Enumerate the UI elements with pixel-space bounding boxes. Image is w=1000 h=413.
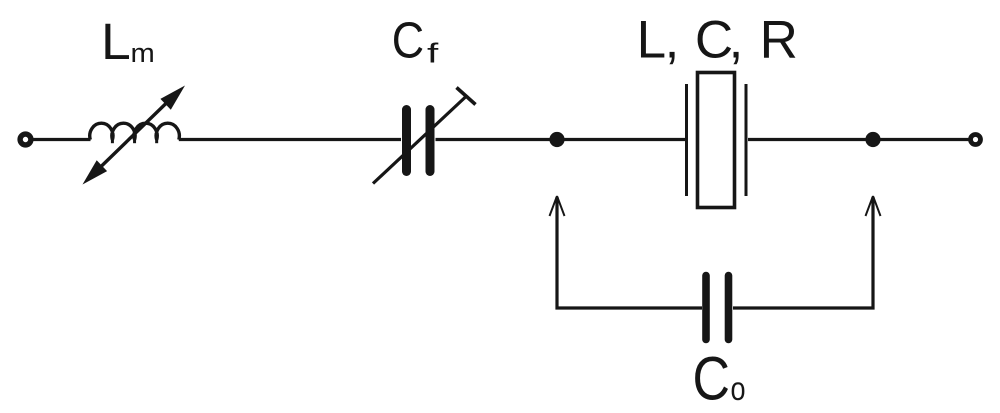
wire bottom left (node A leg and bottom rail to Co) <box>557 197 702 308</box>
crystal body rectangle <box>698 73 735 208</box>
svg-text:L: L <box>101 14 131 71</box>
arrow pointing up to node B <box>866 196 881 216</box>
svg-text:m: m <box>131 38 155 68</box>
capacitor Co plate left <box>702 276 710 340</box>
capacitor Cf plate left <box>402 110 411 172</box>
crystal plate right <box>745 84 748 196</box>
svg-text:C: C <box>392 13 424 69</box>
label Cf <box>392 13 439 69</box>
terminal left <box>20 134 31 145</box>
svg-text:o: o <box>731 372 746 408</box>
wire from left terminal to inductor <box>31 138 91 141</box>
wire from crystal to node B <box>748 138 873 141</box>
svg-text:f: f <box>427 38 439 69</box>
capacitor Cf plate right <box>426 110 435 172</box>
label Co <box>693 345 746 413</box>
node A <box>549 132 564 147</box>
capacitor Co plate right <box>725 276 733 340</box>
svg-text:R: R <box>760 10 798 69</box>
wire from Cf to node A <box>436 138 686 141</box>
wire from node B to right terminal <box>873 138 969 141</box>
crystal plate left <box>685 84 688 196</box>
svg-text:L: L <box>637 10 666 69</box>
terminal right <box>971 135 981 145</box>
svg-text:,: , <box>665 10 680 69</box>
arrow (variable capacitor, diagonal with T-bar) <box>373 88 476 184</box>
arrow (variable inductor adjustment) <box>83 86 186 185</box>
svg-text:,: , <box>729 10 744 69</box>
svg-text:C: C <box>695 10 733 69</box>
wire from inductor to Cf <box>179 138 401 141</box>
arrow pointing up to node A <box>550 196 565 216</box>
label L, C, R <box>637 10 798 69</box>
wire bottom right (bottom rail from Co and node B leg) <box>733 197 873 308</box>
svg-text:C: C <box>693 345 730 413</box>
label Lm <box>101 14 155 71</box>
node B <box>865 132 880 147</box>
inductor Lm <box>90 123 180 143</box>
